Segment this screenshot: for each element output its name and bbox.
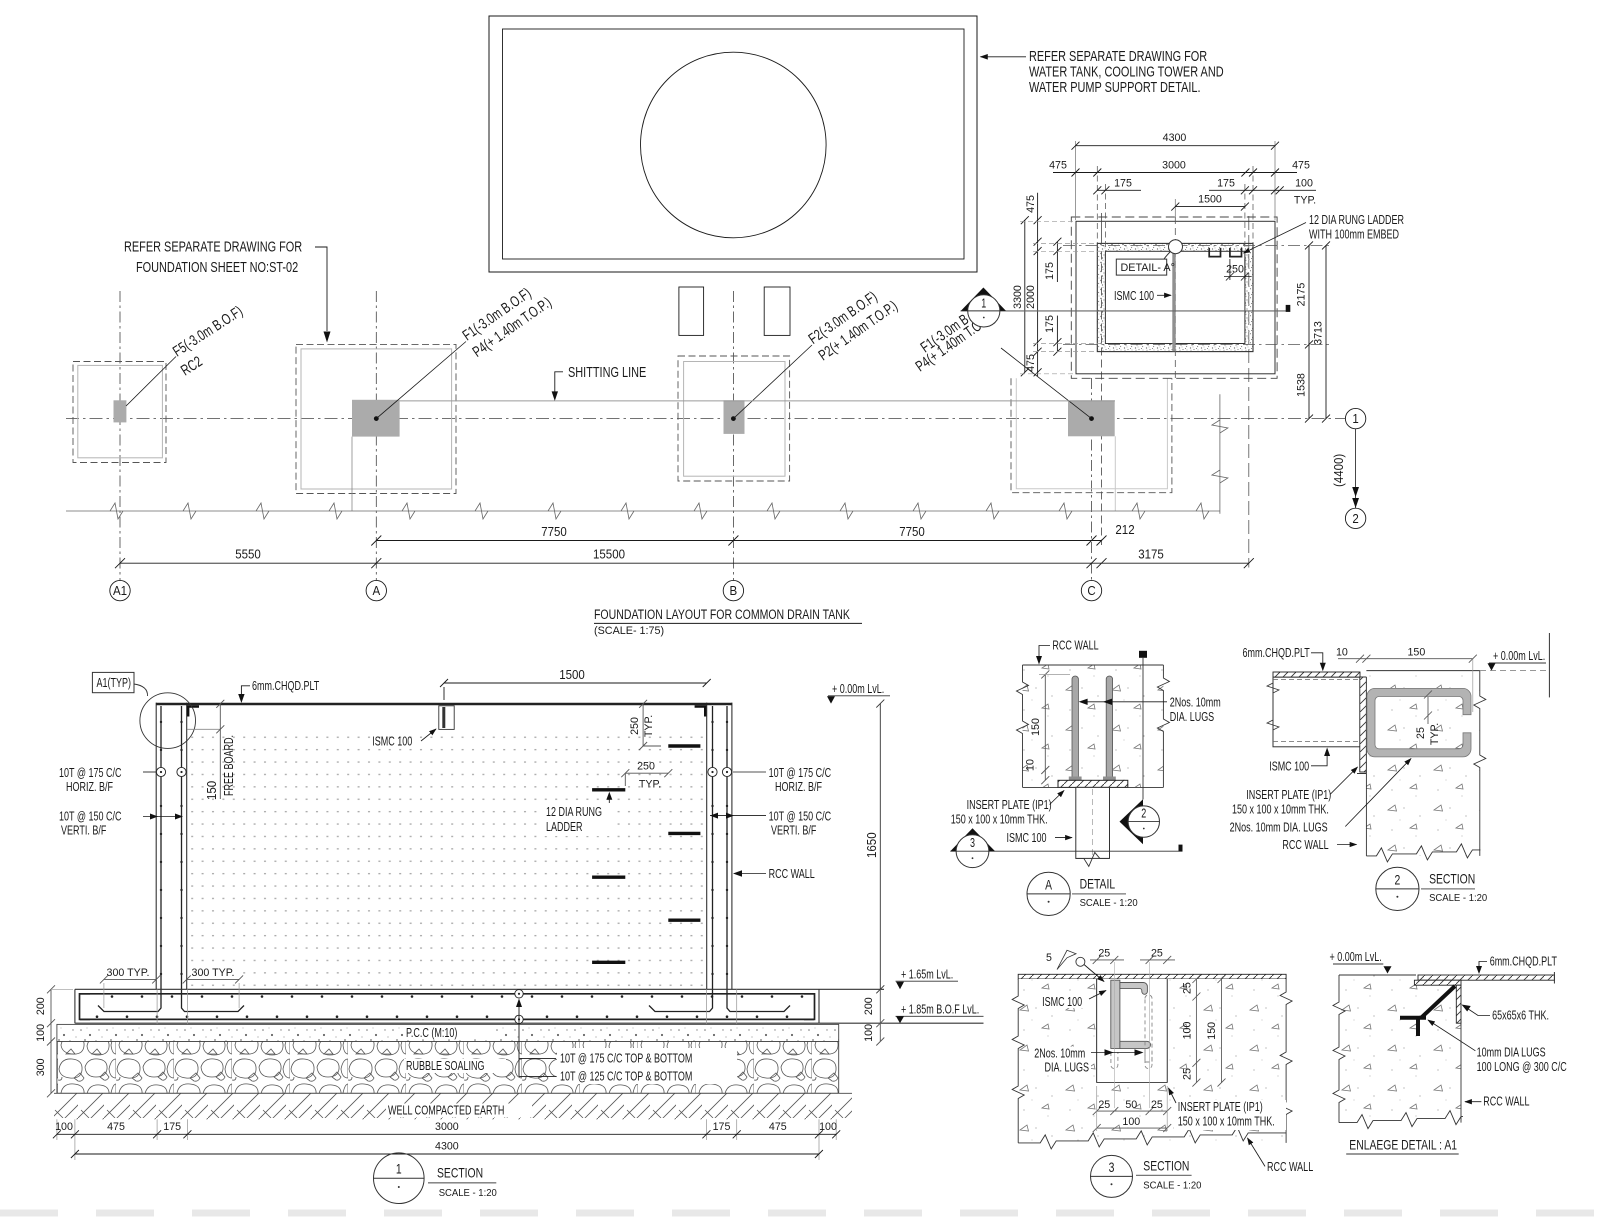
earth band [54, 1093, 852, 1119]
svg-text:150: 150 [1030, 718, 1042, 736]
svg-text:475: 475 [1049, 160, 1067, 172]
svg-text:15500: 15500 [593, 548, 625, 562]
svg-text:RCC WALL: RCC WALL [1282, 837, 1328, 852]
pump pad rectangle left [679, 287, 704, 335]
svg-text:TYP.: TYP. [639, 779, 661, 791]
150 dim detail A [1039, 670, 1070, 784]
label 10T 150 verti left [59, 809, 122, 838]
svg-text:REFER SEPARATE DRAWING FOR: REFER SEPARATE DRAWING FOR [1029, 48, 1207, 65]
break line horizontal with zigzags [66, 503, 1220, 519]
slab rebar bottom [80, 1018, 814, 1020]
svg-text:175: 175 [1114, 178, 1132, 190]
svg-text:RUBBLE SOALING: RUBBLE SOALING [406, 1058, 485, 1073]
svg-text:INSERT PLATE (IP1): INSERT PLATE (IP1) [1246, 787, 1331, 802]
svg-text:100: 100 [1182, 1022, 1194, 1040]
svg-text:ISMC 100: ISMC 100 [1269, 759, 1309, 774]
svg-text:(SCALE- 1:75): (SCALE- 1:75) [594, 625, 664, 637]
stub C projection line down [1114, 436, 1116, 511]
svg-text:WATER TANK, COOLING TOWER AND: WATER TANK, COOLING TOWER AND [1029, 64, 1224, 81]
grid line B [732, 291, 734, 581]
concrete s2 [1366, 671, 1479, 856]
svg-text:250: 250 [629, 717, 641, 735]
leader 10T slab labels [518, 1002, 520, 1076]
freeboard dim [216, 700, 224, 799]
svg-text:3000: 3000 [435, 1121, 459, 1133]
svg-text:B: B [730, 584, 738, 598]
svg-text:100: 100 [819, 1121, 837, 1133]
left extension dashes [1020, 221, 1104, 373]
svg-text:2: 2 [1141, 806, 1146, 821]
svg-text:10T @ 175 C/C: 10T @ 175 C/C [769, 765, 832, 780]
svg-text:TYP.: TYP. [1429, 723, 1441, 745]
250 TYP vertical dim [639, 700, 661, 750]
svg-text:175: 175 [1044, 315, 1056, 333]
svg-text:A: A [372, 584, 380, 598]
foundation A1 inner pale [78, 365, 163, 457]
svg-text:25: 25 [1415, 727, 1427, 739]
tank wall band with speckle [1097, 243, 1253, 351]
section marker 2 [1120, 799, 1144, 844]
section marker 3 [950, 828, 995, 851]
svg-text:FOUNDATION SHEET NO:ST-02: FOUNDATION SHEET NO:ST-02 [136, 259, 298, 276]
svg-text:ISMC 100: ISMC 100 [1007, 830, 1047, 845]
svg-text:+ 0.00m LvL.: + 0.00m LvL. [832, 681, 884, 696]
svg-text:2: 2 [1395, 871, 1401, 887]
break line vertical right [1212, 394, 1228, 513]
foundation A inner pale [301, 349, 452, 489]
svg-text:150 x 100 x 10mm THK.: 150 x 100 x 10mm THK. [1178, 1114, 1275, 1129]
insert plate s2 [1360, 677, 1367, 772]
bottom dim row 1 [53, 1130, 840, 1138]
label 10T 150 verti right [769, 809, 832, 838]
svg-text:65x65x6 THK.: 65x65x6 THK. [1492, 1008, 1549, 1023]
svg-text:SECTION: SECTION [437, 1165, 483, 1181]
svg-text:6mm.CHQD.PLT: 6mm.CHQD.PLT [1490, 954, 1557, 969]
svg-text:3300: 3300 [1012, 285, 1024, 309]
tank outer dashed rect [1071, 217, 1277, 378]
svg-text:SCALE - 1:20: SCALE - 1:20 [1143, 1181, 1202, 1192]
svg-text:475: 475 [107, 1121, 125, 1133]
insert pocket s3 [1096, 979, 1098, 1083]
wall projection lines below slab [57, 989, 836, 1160]
svg-text:RCC WALL: RCC WALL [769, 866, 815, 881]
svg-text:A: A [1045, 876, 1052, 892]
grid line A [375, 291, 377, 581]
svg-text:1538: 1538 [1296, 373, 1308, 397]
svg-text:475: 475 [1292, 160, 1310, 172]
corner angle left [188, 707, 199, 717]
svg-text:10T @ 175 C/C TOP & BOTTOM: 10T @ 175 C/C TOP & BOTTOM [560, 1051, 692, 1066]
svg-text:FOUNDATION LAYOUT FOR COMMON: FOUNDATION LAYOUT FOR COMMON DRAIN TANK [594, 607, 850, 622]
svg-text:INSERT PLATE (IP1): INSERT PLATE (IP1) [967, 797, 1052, 812]
long dashed line at 1248.8 [1248, 216, 1250, 568]
rebar dots left wall [160, 721, 728, 975]
svg-text:2Nos. 10mm DIA. LUGS: 2Nos. 10mm DIA. LUGS [1230, 820, 1328, 835]
lug bar 1 [1072, 676, 1078, 779]
svg-text:1: 1 [1352, 412, 1358, 426]
left dim texts [1012, 195, 1056, 372]
right dims 200/100 + ticks [876, 989, 884, 1045]
svg-text:1: 1 [981, 295, 986, 310]
ISMC embed top middle [439, 706, 454, 730]
6mm plate enlaege [1418, 975, 1554, 980]
ladder rungs section [592, 746, 700, 962]
svg-text:SHITTING LINE: SHITTING LINE [568, 364, 646, 381]
dim row 475/3000/475 [1053, 169, 1297, 177]
horiz rebar symbols left [156, 767, 731, 776]
PCC band [57, 1024, 839, 1041]
base slab [75, 989, 984, 1023]
dash-dot horizontals through wall centreline rows [1063, 245, 1332, 344]
note text: water tank / cooling tower [1029, 48, 1224, 96]
svg-text:SECTION: SECTION [1143, 1158, 1189, 1174]
svg-text:4300: 4300 [435, 1141, 459, 1153]
svg-text:TYP.: TYP. [1294, 195, 1316, 207]
tank right wall [706, 703, 708, 990]
rung ladder label [1309, 212, 1404, 242]
stub A projection line down [351, 437, 353, 511]
svg-text:10: 10 [1336, 647, 1348, 659]
svg-text:3000: 3000 [1162, 160, 1186, 172]
ladder rung plan 1 [1209, 248, 1220, 257]
svg-text:5550: 5550 [235, 548, 261, 562]
lug Y shape [1400, 986, 1455, 1036]
svg-text:100: 100 [863, 1024, 875, 1042]
svg-text:P.C.C (M:10): P.C.C (M:10) [406, 1025, 457, 1040]
faint bottom band [0, 1210, 1600, 1217]
300 TYP dims [104, 966, 153, 978]
leader from note to foundation A [315, 247, 331, 343]
angle vertical leg [1456, 985, 1461, 1023]
150 dim s3 [1218, 975, 1226, 1087]
section 1 title [374, 1153, 425, 1204]
svg-text:12 DIA RUNG: 12 DIA RUNG [546, 804, 602, 819]
grid bubble 2 right [1345, 508, 1365, 528]
concrete block enlaege [1339, 975, 1461, 1123]
svg-text:3175: 3175 [1138, 548, 1164, 562]
svg-text:25: 25 [1098, 1099, 1110, 1111]
shitting line label + leader [555, 372, 563, 394]
grid bubble C [1081, 580, 1101, 600]
svg-text:7750: 7750 [541, 525, 567, 539]
angle horizontal leg [1414, 980, 1461, 985]
INSERT PLATE label detail A [951, 797, 1052, 827]
column stub A1 [114, 400, 127, 422]
label 10T 175 horiz left [59, 765, 122, 794]
svg-text:1500: 1500 [559, 668, 585, 682]
svg-text:250: 250 [1226, 264, 1244, 276]
svg-text:175: 175 [1217, 178, 1235, 190]
svg-text:+ 0.00m LvL.: + 0.00m LvL. [1493, 648, 1545, 663]
212 line solid top [1101, 213, 1103, 243]
ISMC channel section (C shape) [1367, 688, 1471, 757]
12 DIA RUNG LADDER label [544, 804, 610, 836]
cooling tower circle [641, 52, 827, 238]
DETAIL-A balloon [1169, 240, 1183, 254]
(4400) dim between bubbles [1355, 429, 1357, 508]
label 10T 175 horiz right [769, 765, 832, 794]
node dot C [1089, 416, 1094, 421]
svg-text:212: 212 [1115, 523, 1134, 537]
rubble label [404, 1059, 506, 1073]
1500 dim top [440, 679, 711, 700]
leader A1 label [126, 357, 176, 407]
svg-text:(4400): (4400) [1332, 454, 1346, 487]
svg-text:175: 175 [713, 1121, 731, 1133]
bottom dim row 2 4300 [71, 1150, 823, 1158]
concrete block [1023, 665, 1164, 787]
left dims 200/100/300 [47, 985, 73, 1097]
svg-text:300 TYP.: 300 TYP. [192, 967, 235, 979]
ISMC 100 divider channel [1172, 244, 1175, 351]
leader A label [376, 342, 466, 419]
svg-text:INSERT PLATE (IP1): INSERT PLATE (IP1) [1178, 1099, 1263, 1114]
right dims 25/100/25 s3 [1192, 975, 1200, 1087]
left dim 2000/475 line [1034, 193, 1042, 377]
250 dim at rung [1224, 259, 1251, 281]
svg-text:100: 100 [1122, 1116, 1140, 1128]
column stub C [1068, 400, 1115, 436]
svg-text:2Nos. 10mm: 2Nos. 10mm [1034, 1046, 1085, 1061]
svg-text:TYP.: TYP. [643, 715, 655, 737]
svg-text:475: 475 [769, 1121, 787, 1133]
svg-text:10T @ 125 C/C TOP & BOTTOM: 10T @ 125 C/C TOP & BOTTOM [560, 1069, 692, 1084]
svg-text:100: 100 [35, 1024, 47, 1042]
svg-text:150: 150 [1206, 1022, 1218, 1040]
svg-text:100 LONG @ 300 C/C: 100 LONG @ 300 C/C [1477, 1059, 1567, 1074]
grid bubble A1 [110, 580, 130, 600]
svg-text:5: 5 [1046, 952, 1052, 964]
leader to note: refer separate drawing water tank [981, 56, 1027, 58]
svg-text:WATER PUMP SUPPORT DETAIL.: WATER PUMP SUPPORT DETAIL. [1029, 79, 1201, 96]
label F1 P4 at C [913, 297, 998, 376]
ISMC 100 label s3 [1040, 995, 1087, 1008]
lug centre lines s3 [1114, 962, 1149, 1108]
svg-text:DIA. LUGS: DIA. LUGS [1170, 709, 1215, 724]
pump pad rectangle right [764, 287, 790, 335]
right dim 2175/1538 [1305, 241, 1313, 422]
lug bar 2 [1106, 676, 1112, 779]
DETAIL-A box [1116, 259, 1166, 275]
svg-text:DETAIL- A°: DETAIL- A° [1121, 262, 1175, 274]
column stub A [352, 400, 400, 437]
insert pocket white [1097, 979, 1168, 1083]
water tank outer rectangle [489, 16, 977, 272]
dim row2 5550/15500/3175 [115, 558, 1254, 568]
title section 2 [1376, 867, 1419, 910]
lug weld feet [1069, 777, 1082, 783]
svg-text:REFER SEPARATE DRAWING FOR: REFER SEPARATE DRAWING FOR [124, 239, 302, 256]
concrete left edge with breaks [1017, 665, 1029, 787]
svg-text:150: 150 [1408, 647, 1426, 659]
svg-text:2Nos. 10mm: 2Nos. 10mm [1170, 695, 1221, 710]
title section 3 [1091, 1155, 1133, 1197]
wall rebar right [649, 706, 713, 1012]
node dot A [374, 416, 379, 421]
PCC label [404, 1027, 496, 1040]
foundation B inner pale [684, 362, 785, 477]
svg-text:150 x 100 x 10mm THK.: 150 x 100 x 10mm THK. [951, 812, 1048, 827]
svg-text:LADDER: LADDER [546, 819, 583, 834]
dim row 175/175/100 [1093, 186, 1316, 194]
svg-text:SCALE - 1:20: SCALE - 1:20 [1080, 898, 1139, 909]
1650 right dim [876, 700, 884, 994]
svg-text:10mm DIA LUGS: 10mm DIA LUGS [1477, 1045, 1546, 1060]
slab rebar end hooks [80, 994, 815, 1020]
grid bubble B [723, 580, 743, 600]
svg-text:VERTI. B/F: VERTI. B/F [771, 823, 817, 838]
centre dashed vertical of tank [1174, 217, 1176, 378]
svg-text:1500: 1500 [1198, 194, 1222, 206]
rung ladder leader [1244, 223, 1307, 254]
svg-text:FREE BOARD.: FREE BOARD. [221, 735, 236, 796]
svg-text:SECTION: SECTION [1429, 871, 1475, 887]
svg-text:RCC WALL: RCC WALL [1267, 1159, 1313, 1174]
svg-text:WELL COMPACTED EARTH: WELL COMPACTED EARTH [388, 1103, 504, 1118]
left dim 175 lines [1053, 238, 1061, 356]
label F5 RC2 [170, 303, 246, 380]
slab bar section symbols [515, 990, 523, 1024]
section cut 3 horizontal [950, 850, 1178, 852]
svg-text:12 DIA RUNG LADDER: 12 DIA RUNG LADDER [1309, 212, 1404, 227]
insert plate IP1 [1058, 780, 1128, 787]
svg-text:50: 50 [1125, 1099, 1137, 1111]
svg-text:VERTI. B/F: VERTI. B/F [61, 823, 107, 838]
svg-text:DETAIL: DETAIL [1080, 876, 1116, 892]
tank left wall [156, 703, 732, 990]
balloon s3 [1076, 957, 1085, 966]
title detail A [1027, 872, 1070, 915]
top dims s3 [1090, 956, 1175, 964]
labels s2 [1230, 787, 1332, 852]
dim row 4300 [1072, 142, 1280, 150]
svg-text:1650: 1650 [865, 832, 879, 858]
svg-text:175: 175 [163, 1121, 181, 1133]
section line 1-1 horizontal [961, 310, 1288, 312]
foundation A1 outer dashed [73, 362, 166, 463]
foundation C outer dashed (below tank plan) [1011, 378, 1172, 492]
svg-text:6mm.CHQD.PLT: 6mm.CHQD.PLT [1243, 645, 1310, 660]
250 TYP horizontal dim [621, 769, 672, 786]
svg-text:175: 175 [1044, 262, 1056, 280]
svg-text:C: C [1087, 584, 1095, 598]
earth label [386, 1104, 532, 1118]
svg-text:100: 100 [1295, 178, 1313, 190]
lug dashed right s3 [1145, 995, 1152, 1062]
balloon circle A1 [140, 693, 196, 749]
leader B label [733, 345, 812, 419]
bottom dims s3 [1093, 1086, 1172, 1132]
svg-text:4300: 4300 [1163, 132, 1187, 144]
dim row1 7750/7750/212 [371, 536, 1106, 546]
svg-text:475: 475 [1025, 195, 1037, 213]
svg-text:300 TYP.: 300 TYP. [107, 967, 150, 979]
water line freeboard [187, 728, 220, 730]
svg-text:2175: 2175 [1296, 283, 1308, 307]
label F1 P4 at A [460, 285, 555, 361]
svg-text:SCALE - 1:20: SCALE - 1:20 [439, 1188, 498, 1199]
slab rebar dots [96, 995, 804, 1018]
svg-text:WITH 100mm EMBED: WITH 100mm EMBED [1309, 227, 1399, 242]
svg-text:25: 25 [1098, 948, 1110, 960]
svg-text:10T @ 150 C/C: 10T @ 150 C/C [59, 809, 122, 824]
note: refer separate drawing foundation [124, 239, 302, 277]
tank raft solid rect [1076, 221, 1275, 373]
rubble band [57, 1042, 839, 1094]
2Nos lugs label s3 [1031, 1047, 1091, 1074]
svg-text:10: 10 [1024, 759, 1036, 771]
svg-text:100: 100 [55, 1121, 73, 1133]
concrete s3 [1018, 979, 1286, 1143]
svg-text:3713: 3713 [1313, 321, 1325, 345]
concrete right edge with breaks [1157, 665, 1169, 787]
svg-text:A1(TYP): A1(TYP) [97, 675, 132, 690]
svg-text:2: 2 [1352, 512, 1358, 526]
svg-text:7750: 7750 [899, 525, 925, 539]
corner angle right [695, 707, 706, 717]
svg-text:6mm.CHQD.PLT: 6mm.CHQD.PLT [252, 678, 319, 693]
label F2 P2 at B [806, 288, 901, 364]
6mm plate side view [1273, 672, 1360, 677]
wall rebar left [98, 706, 790, 1012]
svg-text:ISMC 100: ISMC 100 [1042, 994, 1082, 1009]
section line 1 end square [1286, 305, 1291, 312]
svg-text:ENLAEGE DETAIL : A1: ENLAEGE DETAIL : A1 [1349, 1137, 1457, 1153]
leader C label [1001, 348, 1092, 419]
svg-text:SCALE - 1:20: SCALE - 1:20 [1429, 893, 1488, 904]
svg-text:ISMC 100: ISMC 100 [372, 734, 412, 749]
svg-text:150 x 100 x 10mm THK.: 150 x 100 x 10mm THK. [1232, 802, 1329, 817]
svg-text:A1: A1 [113, 584, 127, 598]
svg-text:+ 1.65m LvL.: + 1.65m LvL. [901, 967, 953, 982]
section marker 1 [961, 288, 1006, 311]
node dot B [731, 416, 736, 421]
right dim 3713 [1322, 241, 1330, 422]
column stub B [724, 400, 745, 434]
grid line C [1091, 378, 1093, 581]
water tank inner rectangle [503, 29, 965, 259]
svg-text:25: 25 [1151, 948, 1163, 960]
line 212 offset from grid C [1101, 252, 1103, 546]
svg-text:200: 200 [863, 997, 875, 1015]
6mm chequered top plate [156, 703, 732, 706]
wall edge extensions above (dashed) [1097, 166, 1253, 251]
svg-text:3: 3 [970, 835, 975, 850]
svg-text:25: 25 [1182, 982, 1194, 994]
svg-text:150: 150 [205, 781, 219, 800]
slab rebar top [80, 993, 814, 995]
foundation A outer dashed [296, 344, 456, 493]
grid bubble 1 right [1345, 408, 1365, 428]
column bottom break [1076, 852, 1109, 866]
svg-text:+ 0.00m LvL.: + 0.00m LvL. [1330, 949, 1382, 964]
INSERT PLATE label s3 [1174, 1100, 1286, 1130]
svg-text:2000: 2000 [1025, 285, 1037, 309]
left dim 3300 line [1021, 216, 1029, 376]
svg-text:1: 1 [396, 1161, 402, 1177]
ISMC column below [1076, 787, 1110, 858]
grid bubble A [366, 580, 386, 600]
ISMC channel rotated s3 [1111, 980, 1120, 1048]
svg-text:475: 475 [1025, 354, 1037, 372]
svg-text:DIA. LUGS: DIA. LUGS [1045, 1060, 1090, 1075]
svg-text:3: 3 [1109, 1159, 1115, 1175]
svg-text:HORIZ. B/F: HORIZ. B/F [66, 779, 113, 794]
svg-text:25: 25 [1182, 1068, 1194, 1080]
svg-text:25: 25 [1151, 1099, 1163, 1111]
raft corner extensions [1076, 141, 1276, 220]
concrete bottom lines [1023, 786, 1059, 788]
